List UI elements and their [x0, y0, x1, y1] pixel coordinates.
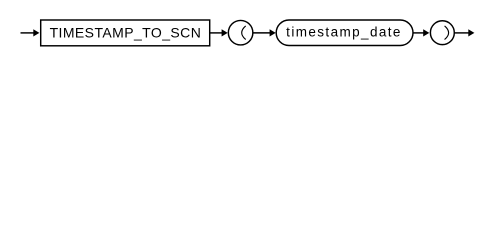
wire: start segment — [21, 32, 35, 34]
circle lparen — [228, 20, 253, 45]
arrowhead into rparen circle — [423, 29, 429, 36]
oval timestamp_date — [276, 20, 413, 46]
arrowhead into oval — [270, 29, 276, 36]
wire: lparen to oval — [253, 32, 270, 34]
svg-text:TIMESTAMP_TO_SCN: TIMESTAMP_TO_SCN — [50, 25, 202, 41]
circle rparen — [430, 21, 454, 45]
final arrowhead — [468, 29, 474, 36]
wire: box to lparen — [210, 32, 223, 34]
box TIMESTAMP_TO_SCN — [41, 20, 210, 46]
wire: end segment — [455, 32, 469, 34]
label ) — [445, 26, 449, 39]
arrowhead into lparen circle — [222, 29, 228, 36]
arrowhead into box — [33, 29, 39, 36]
wire: oval to rparen — [413, 32, 424, 34]
label ( — [242, 26, 246, 39]
svg-text:timestamp_date: timestamp_date — [286, 24, 402, 39]
